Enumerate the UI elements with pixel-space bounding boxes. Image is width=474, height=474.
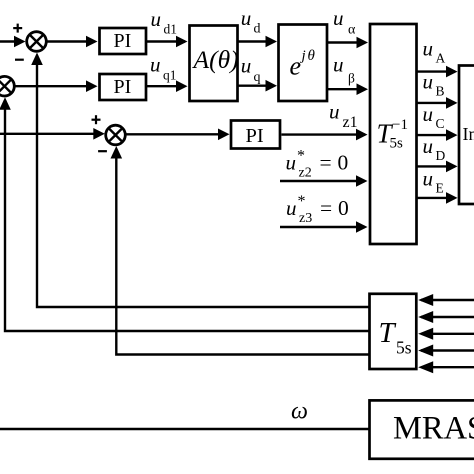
wire A(theta) to e-jtheta row ud — [239, 40, 275, 42]
wire current feedback a into T5s — [421, 299, 474, 301]
svg-text:=: = — [320, 151, 332, 175]
wire e-jtheta to T5s-inv row ualpha — [328, 41, 365, 43]
plus sign at summing junction 1 — [13, 27, 22, 29]
svg-text:z1: z1 — [343, 114, 358, 131]
svg-text:5s: 5s — [396, 338, 412, 358]
plus sign at summing junction 3 — [92, 119, 101, 121]
arrowhead up into summing junction 2 — [0, 97, 11, 110]
arrowhead into inverter uE — [446, 192, 458, 204]
arrowhead into T5s-inv ubeta — [357, 83, 369, 95]
svg-text:u: u — [423, 134, 434, 158]
block inverter — [459, 66, 474, 205]
arrowhead into inverter uC — [446, 129, 458, 141]
arrowhead into T5s-inv uz3 — [356, 221, 368, 233]
svg-text:u: u — [333, 6, 344, 30]
wire PI2 to A(theta) row uq1 — [147, 85, 185, 87]
arrowhead into T5s feedback a — [418, 294, 433, 306]
arrowhead into T5s-inv uz2 — [356, 175, 368, 187]
block T5s-inv — [370, 24, 417, 244]
svg-text:0: 0 — [338, 151, 349, 175]
svg-text:Inverter: Inverter — [463, 124, 474, 144]
wire current feedback d into T5s — [421, 349, 474, 351]
arrowhead into inverter uA — [446, 66, 458, 78]
svg-text:u: u — [150, 53, 161, 77]
block PI2 — [100, 74, 147, 100]
wire current feedback c into T5s — [421, 333, 474, 335]
minus sign at summing junction 3 — [98, 150, 107, 152]
svg-text:PI: PI — [246, 125, 264, 147]
arrowhead into inverter uB — [446, 97, 458, 109]
svg-text:u: u — [333, 53, 344, 77]
svg-text:u: u — [151, 7, 162, 31]
wire T5s output 3 horizontal — [116, 149, 368, 355]
wire uz2-ref into T5s-inv — [280, 180, 365, 182]
svg-text:q: q — [254, 70, 261, 85]
wire T5s-inv to inverter uA — [418, 70, 456, 72]
arrowhead into PI1 — [86, 36, 98, 48]
wire T5s-inv to inverter uD — [418, 165, 456, 167]
arrowhead into PI2 — [86, 80, 98, 92]
svg-text:T: T — [379, 317, 397, 349]
wire PI3 to T5s-inv row uz1 — [282, 133, 366, 135]
arrowhead into A(theta) ud1 — [176, 36, 188, 48]
svg-text:PI: PI — [114, 30, 132, 52]
arrowhead into T5s-inv ualpha — [357, 37, 369, 49]
wire PI1 to A(theta) row ud1 — [147, 40, 185, 42]
svg-text:β: β — [348, 71, 355, 86]
wire iq-ref into summing junction 3 — [0, 133, 102, 135]
svg-text:PI: PI — [114, 76, 132, 98]
wire A(theta) to e-jtheta row uq — [239, 84, 275, 86]
svg-text:α: α — [348, 23, 356, 38]
wire uz3-ref into T5s-inv — [280, 226, 365, 228]
wire summing junction 1 to PI1 — [48, 40, 95, 42]
wire summing junction 3 to PI3 — [127, 133, 228, 135]
arrowhead into T5s feedback b — [418, 311, 433, 323]
svg-text:u: u — [423, 70, 434, 94]
minus sign at summing junction 1 — [15, 59, 24, 61]
arrowhead into A(theta) uq1 — [176, 80, 188, 92]
svg-text:A: A — [436, 51, 446, 66]
block e-jtheta — [279, 25, 328, 102]
svg-text:d: d — [254, 22, 261, 37]
summing junction 3 — [106, 125, 126, 145]
wire e-jtheta to T5s-inv row ubeta — [328, 88, 365, 90]
svg-text:z3: z3 — [299, 211, 312, 226]
svg-text:u: u — [329, 100, 340, 124]
wire T5s output 2 horizontal — [5, 100, 369, 331]
block MRAS — [370, 400, 474, 458]
svg-text:A(θ): A(θ) — [192, 45, 239, 74]
arrowhead into T5s feedback e — [418, 361, 433, 373]
svg-text:u: u — [286, 196, 297, 220]
svg-text:u: u — [241, 53, 252, 77]
block PI3 — [231, 121, 280, 149]
block PI1 — [100, 28, 147, 54]
arrowhead into summing junction 1 — [14, 36, 26, 48]
wire T5s-inv to inverter uC — [418, 134, 456, 136]
svg-text:0: 0 — [338, 196, 349, 220]
svg-text:*: * — [298, 193, 306, 210]
svg-text:−1: −1 — [392, 117, 408, 133]
svg-text:u: u — [423, 37, 434, 61]
svg-text:z2: z2 — [299, 166, 312, 181]
summing junction 2 — [0, 76, 14, 96]
wire summing junction 2 to PI2 — [16, 85, 95, 87]
svg-text:u: u — [423, 102, 434, 126]
svg-text:d1: d1 — [164, 22, 178, 37]
svg-text:e: e — [290, 51, 302, 80]
svg-text:D: D — [436, 148, 446, 163]
svg-text:=: = — [320, 196, 332, 220]
svg-text:E: E — [436, 181, 444, 196]
block T5s — [370, 294, 417, 369]
arrowhead into e-jtheta uq — [266, 80, 278, 92]
arrowhead into PI3 — [218, 129, 230, 141]
arrowhead into T5s feedback d — [418, 345, 433, 357]
svg-text:u: u — [241, 6, 252, 30]
wire current feedback b into T5s — [421, 316, 474, 318]
wire T5s output 1 horizontal — [37, 56, 369, 308]
wire speed-ref into summing junction 1 — [0, 40, 22, 42]
svg-text:MRAS: MRAS — [393, 411, 474, 447]
block A(theta) — [190, 26, 238, 102]
svg-text:5s: 5s — [390, 136, 404, 152]
svg-text:*: * — [297, 148, 305, 165]
svg-text:θ: θ — [308, 48, 316, 64]
wire T5s-inv to inverter uB — [418, 102, 456, 104]
wire current feedback e into T5s — [421, 366, 474, 368]
summing junction 1 — [27, 32, 47, 52]
svg-text:B: B — [436, 84, 445, 99]
svg-text:C: C — [436, 116, 445, 131]
svg-text:q1: q1 — [163, 68, 177, 83]
svg-text:u: u — [423, 167, 434, 191]
arrowhead into summing junction 3 — [93, 128, 105, 140]
arrowhead into e-jtheta ud — [266, 36, 278, 48]
svg-text:ω: ω — [291, 399, 308, 425]
wire T5s-inv to inverter uE — [418, 197, 456, 199]
arrowhead into T5s-inv uz1 — [356, 129, 368, 141]
svg-text:u: u — [286, 151, 297, 175]
arrowhead into T5s feedback c — [418, 328, 433, 340]
arrowhead up into summing junction 1 — [31, 53, 43, 66]
wire omega from MRAS — [0, 428, 369, 430]
arrowhead into inverter uD — [446, 161, 458, 173]
arrowhead up into summing junction 3 — [111, 146, 123, 159]
